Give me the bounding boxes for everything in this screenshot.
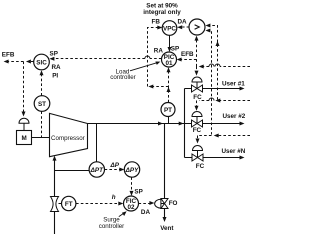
svg-text:01: 01 bbox=[165, 60, 173, 67]
svg-text:RA: RA bbox=[52, 64, 62, 71]
svg-text:integral only: integral only bbox=[143, 9, 181, 16]
flow element venturi bbox=[51, 197, 59, 212]
svg-text:ΔP: ΔP bbox=[110, 162, 120, 169]
svg-text:Vent: Vent bbox=[160, 225, 174, 232]
svg-text:User #1: User #1 bbox=[222, 81, 245, 88]
svg-text:PI: PI bbox=[52, 73, 58, 80]
controller SIC bbox=[34, 54, 50, 70]
svg-text:FC: FC bbox=[196, 163, 205, 170]
signal selector lower input (from User #N valve signal) bbox=[205, 29, 211, 135]
pipe riser to users bbox=[184, 89, 186, 158]
signal FB line from PT tee up to VPC bbox=[148, 26, 169, 89]
svg-text:DA: DA bbox=[141, 209, 151, 216]
svg-text:FC: FC bbox=[193, 127, 202, 134]
svg-text:02: 02 bbox=[127, 204, 135, 211]
svg-text:RA: RA bbox=[154, 47, 164, 54]
relay dPY bbox=[124, 162, 139, 177]
actuator dome on motor bbox=[19, 118, 29, 130]
svg-text:FO: FO bbox=[169, 200, 178, 207]
signal SP from VPC down to PIC-01 bbox=[168, 35, 172, 52]
signal dP from dPT to dPY bbox=[105, 168, 125, 172]
shaft M to compressor bbox=[32, 137, 50, 139]
note: Set at 90% integral only bbox=[143, 2, 181, 15]
pipe User #N branch bbox=[185, 156, 245, 160]
signal ST tap to shaft bbox=[41, 111, 43, 137]
signal PT to PIC-01 bbox=[167, 67, 171, 102]
signal User #2 valve line from right edge bbox=[195, 98, 251, 111]
transmitter dPT bbox=[89, 162, 104, 177]
controller FIC-02 bbox=[124, 196, 139, 211]
svg-text:Compressor: Compressor bbox=[51, 135, 85, 142]
pipe User #1 branch bbox=[185, 87, 245, 91]
svg-text:FT: FT bbox=[65, 201, 73, 208]
svg-text:ST: ST bbox=[38, 101, 46, 108]
signal EFB into PIC-01 from valve column bbox=[177, 58, 197, 62]
svg-text:SP: SP bbox=[134, 188, 142, 195]
signal ST to SIC bbox=[40, 70, 44, 95]
transmitter ST (speed) bbox=[34, 96, 50, 112]
svg-text:M: M bbox=[21, 135, 26, 142]
svg-text:User #N: User #N bbox=[222, 148, 246, 155]
svg-text:SIC: SIC bbox=[36, 59, 47, 66]
svg-text:SP: SP bbox=[171, 45, 179, 52]
callout Load controller bbox=[110, 62, 160, 81]
svg-text:FC: FC bbox=[193, 94, 202, 101]
signal link selector to VPC (DA) bbox=[177, 25, 189, 29]
valve User #N bbox=[192, 146, 203, 162]
svg-text:PT: PT bbox=[164, 107, 172, 114]
svg-text:SP: SP bbox=[50, 50, 58, 57]
svg-text:controller: controller bbox=[99, 223, 124, 230]
transmitter PT tap bbox=[168, 117, 170, 124]
high selector > bbox=[189, 19, 205, 35]
svg-text:User #2: User #2 bbox=[223, 113, 246, 120]
compressor body bbox=[50, 113, 88, 156]
signal selector upper input (from User #2 valve signal) bbox=[205, 24, 219, 100]
pipe tap to dPT from suction bbox=[55, 170, 90, 172]
svg-text:FB: FB bbox=[152, 18, 161, 25]
signal SP from dPY to FIC-02 bbox=[130, 177, 134, 196]
signal User #N valve line from right edge bbox=[196, 134, 251, 144]
signal selector bottom input (from User #1 valve signal column) bbox=[195, 36, 199, 67]
pipe suction inlet bbox=[53, 156, 57, 234]
signal FIC-02 to vent valve bbox=[139, 201, 155, 205]
pipe vent branch bbox=[163, 124, 167, 223]
svg-text:ΔPY: ΔPY bbox=[125, 167, 139, 174]
svg-text:h: h bbox=[112, 194, 116, 201]
valve User #2 bbox=[192, 112, 203, 127]
transmitter FT bbox=[59, 196, 76, 210]
svg-text:ΔPT: ΔPT bbox=[90, 167, 104, 174]
svg-text:EFB: EFB bbox=[2, 52, 15, 59]
svg-text:VPC: VPC bbox=[163, 25, 176, 32]
signal h from FT to FIC-02 bbox=[76, 202, 123, 206]
signal User #1 valve line from right edge bbox=[195, 64, 251, 76]
pipe main discharge bbox=[88, 122, 245, 126]
pipe tap to dPT from discharge bbox=[96, 124, 98, 162]
signal to motor actuator bbox=[22, 62, 26, 117]
svg-text:controller: controller bbox=[110, 74, 135, 81]
svg-text:EFB: EFB bbox=[181, 51, 194, 58]
controller VPC bbox=[162, 21, 177, 36]
transmitter PT bbox=[161, 103, 175, 117]
signal EFB output to left edge bbox=[4, 60, 34, 64]
valve FO vent valve with side actuator bbox=[155, 199, 168, 209]
signal SP from PIC-01 to SIC bbox=[49, 56, 161, 61]
callout Surge controller bbox=[99, 211, 127, 230]
valve User #1 bbox=[192, 77, 203, 92]
svg-text:DA: DA bbox=[178, 18, 188, 25]
controller PIC-01 bbox=[162, 52, 177, 67]
motor M bbox=[17, 131, 32, 145]
